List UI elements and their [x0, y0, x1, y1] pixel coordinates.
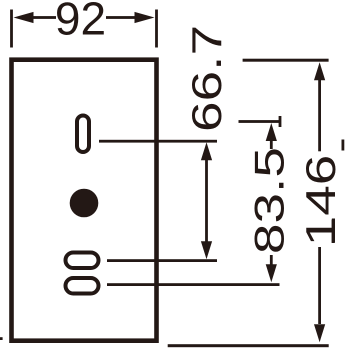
dimension 92: right extension tick	[155, 10, 158, 48]
dimension 66.7: down arrow	[201, 241, 212, 259]
wiring hole (filled circle)	[70, 189, 99, 218]
dimension 146: up arrow	[314, 62, 325, 80]
dimension 92: left arrow	[14, 12, 34, 23]
dimension 66.7: shaft	[205, 158, 208, 243]
foot serif of digit 1 in 146	[332, 220, 335, 244]
dimension 66.7: up arrow	[201, 142, 212, 160]
cropped crumb at left edge bottom	[0, 337, 3, 340]
svg-text:92: 92	[55, 0, 106, 45]
lower slot A (horizontal stadium hole)	[66, 253, 99, 269]
svg-text:83.5: 83.5	[247, 147, 293, 254]
dimension 83.5: upper shaft segment	[270, 139, 273, 149]
bottom extension line for 146	[168, 344, 329, 347]
leader from lower slot A L2	[107, 259, 217, 262]
dimension 92: dimension line left segment	[29, 16, 56, 19]
dimension 146: upper shaft segment	[318, 78, 321, 151]
leader from lower slot B L3	[107, 283, 280, 286]
dimension 83.5: down arrow	[266, 264, 277, 282]
dimension 83.5: lower shaft segment	[270, 255, 273, 267]
cropped tick at right edge	[342, 140, 345, 151]
svg-text:146: 146	[299, 155, 345, 247]
fixture plate outline	[12, 60, 157, 341]
reference line for top slot upper arc L4	[239, 120, 282, 123]
svg-text:66.7: 66.7	[185, 25, 231, 132]
end tick of reference line L4	[279, 116, 282, 127]
dimension 92: right arrow	[135, 12, 155, 23]
dimension 83.5: up arrow	[266, 123, 277, 141]
dimension 146: down arrow	[314, 324, 325, 342]
dimension 92: left extension tick	[10, 10, 13, 48]
top extension line for 146	[243, 59, 329, 62]
top mounting slot (vertical stadium hole)	[77, 116, 89, 153]
lower slot B (horizontal stadium hole)	[66, 278, 99, 294]
leader from top slot (lower arc centerline) L1	[99, 140, 217, 143]
dimension 92: dimension line right segment	[106, 16, 136, 19]
dimension 146: lower shaft segment	[318, 247, 321, 324]
